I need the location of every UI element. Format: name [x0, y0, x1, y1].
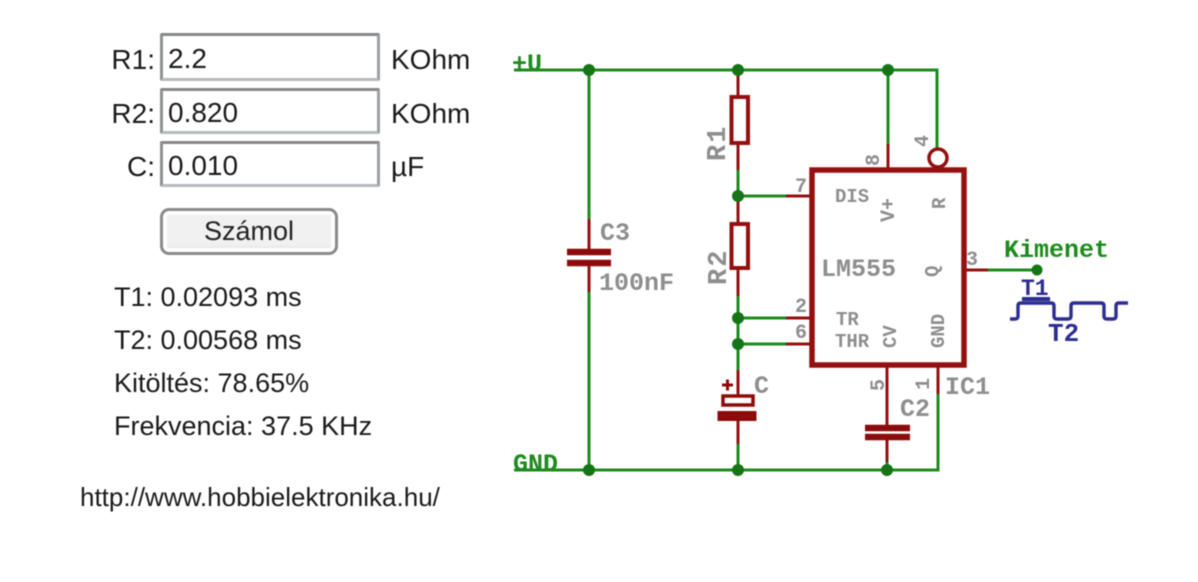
- svg-text:2: 2: [795, 296, 807, 319]
- svg-text:C: C: [754, 372, 769, 401]
- svg-text:6: 6: [795, 322, 807, 345]
- svg-text:V+: V+: [878, 198, 901, 222]
- svg-text:C2: C2: [900, 395, 930, 424]
- svg-text:GND: GND: [513, 450, 558, 479]
- svg-text:DIS: DIS: [835, 186, 869, 208]
- svg-text:4: 4: [912, 135, 935, 147]
- svg-text:5: 5: [868, 379, 891, 391]
- svg-text:TR: TR: [836, 309, 859, 331]
- svg-text:+U: +U: [512, 50, 542, 79]
- svg-text:THR: THR: [835, 331, 870, 353]
- svg-text:1: 1: [913, 378, 936, 390]
- svg-text:LM555: LM555: [821, 255, 896, 284]
- svg-text:100nF: 100nF: [599, 269, 674, 298]
- svg-text:GND: GND: [928, 314, 950, 348]
- svg-text:C3: C3: [600, 219, 630, 248]
- svg-text:3: 3: [966, 249, 978, 272]
- svg-text:IC1: IC1: [945, 373, 990, 402]
- svg-text:T2: T2: [1048, 319, 1079, 349]
- svg-text:R: R: [929, 197, 951, 209]
- svg-text:Q: Q: [922, 266, 944, 277]
- svg-text:Kimenet: Kimenet: [1004, 236, 1109, 265]
- svg-text:8: 8: [863, 154, 886, 166]
- svg-text:CV: CV: [880, 325, 902, 348]
- svg-text:R2: R2: [705, 249, 735, 285]
- svg-text:R1: R1: [704, 125, 734, 161]
- svg-text:T1: T1: [1021, 276, 1049, 302]
- svg-text:7: 7: [795, 176, 807, 199]
